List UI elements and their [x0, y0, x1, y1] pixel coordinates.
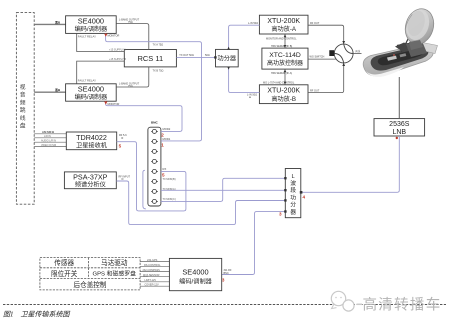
antenna open lid: [421, 43, 438, 54]
svg-text:+15 SUPPLY B: +15 SUPPLY B: [109, 58, 126, 61]
wire BNC TX MON(A) to L-band divider port2: [161, 189, 287, 191]
svg-text:分: 分: [290, 201, 296, 209]
svg-text:黑B: 黑B: [55, 87, 61, 92]
svg-text:高清转播车: 高清转播车: [363, 296, 442, 313]
wire L-band divider port4 to encoder3: [222, 210, 287, 274]
svg-text:视: 视: [20, 83, 26, 91]
BNC jack 5: [151, 167, 166, 173]
monitor wire encoder2 to BNC MOD2: [104, 101, 182, 131]
BNC jack 1: [151, 127, 171, 133]
BNC jack 6: [151, 178, 176, 183]
svg-text:TX MON(C): TX MON(C): [163, 198, 176, 201]
svg-text:1: 1: [161, 143, 164, 148]
svg-text:2536S: 2536S: [389, 121, 410, 128]
svg-text:L/R IN: L/R IN: [44, 135, 51, 138]
svg-text:LIMIT-12V: LIMIT-12V: [145, 279, 157, 282]
svg-text:高功放-A: 高功放-A: [271, 25, 297, 33]
svg-text:VIDEO IN SDI: VIDEO IN SDI: [41, 144, 56, 147]
svg-text:WG SWITCH: WG SWITCH: [310, 56, 325, 59]
svg-text:卫星接收机: 卫星接收机: [76, 141, 108, 149]
svg-text:BNC: BNC: [151, 120, 158, 124]
svg-text:高功放-B: 高功放-B: [271, 95, 296, 103]
svg-text:TX MON(B): TX MON(B): [163, 178, 176, 181]
svg-text:5: 5: [119, 143, 122, 148]
feeder line antenna to LNB: [398, 77, 400, 119]
svg-text:后仓盖控制: 后仓盖控制: [74, 280, 107, 289]
wire panel to encoder 1: [34, 19, 65, 24]
svg-text:MO L-7074 AND CONTROL: MO L-7074 AND CONTROL: [263, 81, 295, 84]
svg-text:线: 线: [20, 114, 26, 122]
svg-text:GPS 和磁感罗盘: GPS 和磁感罗盘: [93, 270, 137, 278]
svg-text:RF OUT: RF OUT: [310, 22, 320, 25]
wire BNC TX MON(C) to L-band divider port1: [161, 177, 287, 201]
antenna photo: [363, 5, 438, 77]
svg-text:L-IN 50Ω: L-IN 50Ω: [247, 93, 257, 96]
svg-text:XTU-200K: XTU-200K: [267, 18, 300, 25]
svg-text:器: 器: [290, 209, 296, 216]
svg-text:XTU-200K: XTU-200K: [267, 88, 300, 95]
svg-text:波: 波: [290, 179, 296, 187]
svg-text:3: 3: [279, 211, 282, 216]
antenna feed struts: [397, 33, 412, 52]
svg-text:COVER-12V: COVER-12V: [145, 283, 160, 286]
power divider 功分器: [216, 49, 239, 67]
RCS 11 redundancy switch: [124, 50, 176, 67]
svg-text:RS-CONTROL: RS-CONTROL: [144, 264, 161, 267]
svg-text:IF: IF: [121, 137, 124, 140]
svg-text:驱动-SENSOR: 驱动-SENSOR: [143, 273, 160, 277]
wires panel to receiver: [34, 130, 66, 147]
wire controller to waveguide switch: [308, 56, 336, 59]
loop stub around BNC monitors: [143, 201, 163, 209]
svg-text:LNB: LNB: [392, 129, 406, 136]
L-band output wire encoder1 to RCS top: [116, 19, 163, 50]
monitor control link controller - HPA B: [263, 69, 295, 85]
antenna dish: [401, 5, 438, 47]
svg-text:232-GPS: 232-GPS: [147, 259, 158, 262]
svg-text:马达驱动: 马达驱动: [101, 258, 128, 267]
svg-text:5: 5: [162, 173, 165, 178]
watermark logo: [331, 291, 363, 311]
encoder U3 SE4000: [169, 258, 221, 290]
svg-text:SE4000: SE4000: [78, 84, 104, 93]
antenna base inner dark: [371, 46, 429, 70]
svg-text:功: 功: [290, 193, 296, 201]
encoder3 RF label: [224, 269, 232, 275]
BNC jack 3: [151, 149, 158, 153]
svg-text:RX: RX: [163, 167, 167, 171]
LNB 2536S: [374, 119, 425, 136]
antenna base shell: [363, 45, 433, 76]
svg-text:4: 4: [303, 195, 306, 200]
svg-text:75Ω: 75Ω: [128, 85, 133, 88]
satellite receiver TDR4022: [66, 132, 116, 150]
svg-text:RCS 11: RCS 11: [137, 54, 163, 63]
svg-text:FAULT RELAY: FAULT RELAY: [78, 78, 96, 82]
svg-text:TX A 75Ω: TX A 75Ω: [153, 44, 164, 47]
L-band divider L波段功分器: [285, 169, 301, 218]
sensor table: [40, 258, 140, 290]
svg-text:XTC-114D: XTC-114D: [269, 52, 301, 59]
svg-text:跳: 跳: [20, 106, 26, 114]
svg-text:频: 频: [20, 98, 26, 106]
svg-text:TDR4022: TDR4022: [76, 133, 107, 142]
svg-text:RF INPUT: RF INPUT: [119, 175, 131, 178]
svg-text:50Ω: 50Ω: [205, 54, 210, 57]
L-band wire LNB to L-band divider: [300, 136, 400, 194]
dish lower bracket: [409, 40, 423, 50]
wire HPA A to waveguide switch: [308, 22, 345, 44]
BNC jack 2: [151, 137, 171, 143]
wire divider to HPA A: [227, 22, 259, 50]
wire divider to HPA B: [227, 67, 259, 98]
svg-text:+15 SUPPLY A: +15 SUPPLY A: [109, 48, 126, 51]
svg-text:高功放控制器: 高功放控制器: [267, 59, 303, 67]
jumper panel 视音频跳线盘: [16, 13, 34, 205]
L-band output wire encoder2 to RCS bottom: [116, 67, 163, 88]
BNC jack 4: [151, 159, 158, 163]
svg-text:3: 3: [222, 278, 225, 283]
svg-text:频谱分析仪: 频谱分析仪: [75, 181, 106, 189]
svg-text:MOD2: MOD2: [163, 127, 171, 131]
svg-text:2: 2: [161, 132, 164, 137]
svg-text:HPA SERIAL (IF B): HPA SERIAL (IF B): [271, 45, 292, 48]
wire panel to encoder 2: [34, 87, 65, 92]
spectrum analyzer PSA-37XP: [64, 172, 116, 189]
svg-text:TX OUT 50Ω: TX OUT 50Ω: [179, 54, 194, 57]
monitor wire encoder1 to BNC MOD1: [104, 33, 201, 140]
svg-text:TX B 75Ω: TX B 75Ω: [153, 69, 164, 72]
svg-text:PSA-37XP: PSA-37XP: [73, 172, 108, 181]
BNC jack 7: [151, 188, 176, 193]
svg-text:编码/调制器: 编码/调制器: [179, 277, 212, 285]
svg-text:限位开关: 限位开关: [51, 269, 78, 278]
monitor control link HPA A - controller: [266, 34, 297, 48]
svg-text:音: 音: [20, 91, 26, 99]
svg-text:MONITOR: MONITOR: [108, 103, 120, 106]
svg-text:L-IN 50Ω: L-IN 50Ω: [248, 22, 258, 25]
caption rule: [3, 304, 446, 306]
base equipment blobs: [387, 56, 397, 61]
svg-text:AUDIO L/R IN: AUDIO L/R IN: [41, 139, 56, 142]
svg-text:HPA SERIAL (IF A): HPA SERIAL (IF A): [271, 72, 292, 75]
svg-text:FAULT RELAY: FAULT RELAY: [78, 34, 96, 38]
wires table to encoder3: [140, 259, 169, 287]
HPA controller XTC-114D: [262, 48, 308, 69]
svg-text:编码/调制器: 编码/调制器: [75, 93, 108, 101]
TX wire RCS to divider: [176, 54, 216, 58]
RF wire receiver to BNC RX loop: [117, 134, 186, 211]
svg-text:BNC: BNC: [224, 272, 229, 275]
svg-text:功分器: 功分器: [218, 55, 237, 63]
svg-text:段: 段: [290, 186, 296, 194]
svg-text:232-COMPASS: 232-COMPASS: [143, 269, 161, 272]
svg-text:SE4000: SE4000: [78, 16, 104, 25]
svg-text:ASI SDI B: ASI SDI B: [42, 130, 54, 134]
wire HPA B to waveguide switch: [308, 63, 345, 93]
dish support shadow: [406, 41, 427, 57]
fault relay wire encoder1 to RCS: [77, 33, 126, 51]
BNC jack 8: [151, 198, 176, 203]
svg-text:MONITOR AND CONTROL: MONITOR AND CONTROL: [266, 37, 297, 40]
svg-text:SE4000: SE4000: [182, 267, 208, 276]
encoder U2 SE4000: [66, 84, 117, 101]
HPA B XTU-200K: [259, 85, 308, 104]
svg-text:75Ω: 75Ω: [128, 21, 133, 24]
HPA A XTU-200K: [259, 15, 308, 34]
antenna base rim highlight: [365, 67, 405, 77]
fault relay wire encoder2 to RCS: [77, 58, 127, 84]
wire analyzer to L-band divider port3: [116, 175, 286, 224]
svg-text:MOD1: MOD1: [163, 137, 171, 141]
waveguide switch: [329, 44, 361, 63]
svg-text:编码/调制器: 编码/调制器: [75, 25, 108, 33]
encoder U1 SE4000: [66, 16, 117, 34]
svg-text:MONITOR: MONITOR: [108, 35, 120, 38]
svg-text:天线: 天线: [355, 49, 361, 53]
BNC patch panel: [148, 120, 161, 206]
svg-text:传感器: 传感器: [54, 258, 74, 267]
svg-text:RF OUT: RF OUT: [310, 90, 320, 93]
svg-text:图1 卫星传输系统图: 图1 卫星传输系统图: [3, 311, 70, 319]
svg-text:盘: 盘: [20, 122, 26, 130]
svg-text:黑B: 黑B: [55, 19, 61, 24]
